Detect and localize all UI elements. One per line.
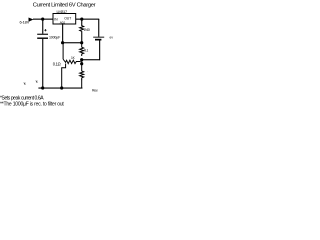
wire: OUT to battery corner xyxy=(76,19,100,20)
node: rail/C1 junction xyxy=(41,86,44,89)
svg-text:IN: IN xyxy=(54,17,58,21)
wire: ADJ pin down xyxy=(62,24,63,43)
input arrow xyxy=(29,18,34,22)
capacitor C1 xyxy=(37,34,48,35)
node: input/C1 junction xyxy=(41,18,44,21)
svg-text:x: x xyxy=(23,80,27,86)
svg-text:240: 240 xyxy=(84,28,90,32)
op-amp U1 box xyxy=(53,14,76,25)
svg-text:x: x xyxy=(35,78,39,84)
node: R3/R4 junction xyxy=(80,62,83,65)
capacitor C1 plus mark xyxy=(44,29,46,31)
svg-text:6V: 6V xyxy=(110,36,114,40)
wire: between nodes xyxy=(81,60,82,64)
svg-text:OUT: OUT xyxy=(64,17,71,21)
wire: junction down to C1 xyxy=(42,19,43,34)
wire: R1 down to ADJ node xyxy=(81,31,82,43)
node: R2/battery-return junction xyxy=(80,58,83,61)
svg-text:Current Limited 6V Charger: Current Limited 6V Charger xyxy=(33,2,96,8)
wire: OUT node down to R1 xyxy=(81,19,82,26)
wire: input to IC IN xyxy=(33,19,53,20)
svg-text:1000µF: 1000µF xyxy=(49,36,61,40)
wire: battery bottom down to return xyxy=(99,41,100,61)
wire: C1 down to ground rail xyxy=(42,39,43,89)
resistor R4 zigzag xyxy=(80,64,84,80)
node: rail/R3 junction xyxy=(60,86,63,89)
battery B1 wire down xyxy=(98,19,99,37)
ground rail xyxy=(38,88,82,89)
svg-text:**The 1000µF is rec. to filter: **The 1000µF is rec. to filter out xyxy=(0,101,64,107)
node: ADJ junction left xyxy=(61,41,64,44)
svg-text:0.1Ω: 0.1Ω xyxy=(53,62,61,67)
wire: R3 left lead down to rail xyxy=(62,64,66,89)
battery B1 short plate xyxy=(95,39,101,41)
wire: ADJ node horizontal xyxy=(63,42,82,43)
svg-text:.: . xyxy=(87,69,88,73)
wire: ADJ node down to R3 xyxy=(63,43,64,60)
node: OUT/R1 junction xyxy=(80,18,83,21)
battery B1 long plate xyxy=(93,36,104,39)
resistor R2 zigzag xyxy=(80,43,84,56)
node: ADJ junction right xyxy=(80,41,83,44)
svg-text:Rev.: Rev. xyxy=(92,89,98,93)
resistor R1 zigzag xyxy=(80,26,84,32)
svg-text:5.1: 5.1 xyxy=(84,48,88,52)
svg-text:6-18V: 6-18V xyxy=(20,20,30,25)
wire: R4 bottom corner xyxy=(81,80,82,89)
resistor R3 zigzag horizontal xyxy=(63,59,81,63)
wire: battery return horizontal xyxy=(82,59,100,60)
